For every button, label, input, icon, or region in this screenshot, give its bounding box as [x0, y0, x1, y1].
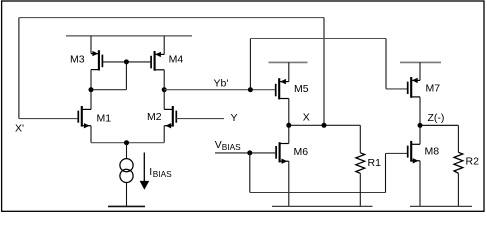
wire M4 source lead: [163, 36, 165, 55]
transistor M8 (NMOS, stubs right): [408, 141, 420, 164]
wire M6 source to ground: [288, 161, 290, 206]
transistor M2 (NMOS, stubs left): [164, 106, 176, 128]
wire M7 drain to node Z: [419, 97, 421, 126]
svg-text:Z(-): Z(-): [428, 112, 445, 124]
wire VBIAS to M6 gate: [215, 152, 276, 154]
wire M7 source lead: [419, 62, 421, 80]
wire M5 drain to node X: [288, 99, 290, 126]
wire M3 drain to M1 drain: [90, 70, 92, 110]
junction node Z: [418, 123, 423, 128]
ground (M6/R1): [272, 205, 373, 207]
svg-text:X': X': [15, 123, 24, 135]
wire M6 drain to node X: [288, 125, 290, 143]
wire R1 top lead: [359, 125, 361, 153]
wire VBIAS branch up to M8: [385, 153, 387, 192]
svg-text:M4: M4: [169, 54, 184, 66]
transistor M5 (PMOS, stubs right): [276, 78, 289, 99]
transistor M7 (PMOS, stubs right): [408, 77, 420, 98]
junction node X at top-route riser: [322, 123, 327, 128]
transistor M1 (NMOS, stubs right): [78, 106, 91, 128]
junction VBIAS branch: [247, 150, 252, 155]
wire M5 source lead: [288, 62, 290, 81]
wire VBIAS branch across: [250, 192, 386, 194]
wire M8 drain to node Z: [419, 125, 421, 144]
svg-text:X: X: [303, 111, 310, 123]
svg-text:M3: M3: [70, 53, 85, 65]
wire M8 gate lead: [386, 152, 408, 154]
junction tail node: [124, 140, 129, 145]
svg-text:Yb': Yb': [214, 78, 229, 90]
wire M7 gate lead: [386, 88, 408, 90]
svg-text:R1: R1: [368, 157, 382, 169]
junction M4 drain (node Yb'): [162, 87, 167, 92]
junction M3 drain: [89, 87, 94, 92]
svg-text:M7: M7: [426, 83, 441, 95]
current arrow IBIAS: [143, 153, 145, 183]
wire R1 bottom lead: [359, 173, 361, 206]
wire top route drop to node X: [323, 18, 325, 126]
power rail VDD (M3/M4): [66, 35, 192, 37]
wire cross-coupling to M3 drain: [91, 89, 126, 91]
svg-text:Y: Y: [231, 112, 238, 124]
svg-text:M6: M6: [294, 146, 309, 158]
junction node X at M5/M6 drains: [286, 123, 291, 128]
wire M2 source drop: [163, 126, 165, 143]
wire drop to M7 gate: [385, 39, 387, 89]
wire node X: [289, 124, 361, 126]
wire X' riser (left vertical): [18, 18, 20, 119]
transistor M6 (NMOS, stubs right): [276, 142, 289, 164]
power rail VDD (M7): [400, 61, 441, 63]
wire R2 top lead: [457, 125, 459, 152]
wire cross-coupling gates down: [125, 62, 127, 90]
ground (M8/R2): [410, 205, 472, 207]
wire tail (M1/M2 sources): [91, 142, 164, 144]
wire tail to current source: [126, 143, 128, 159]
wire M1 source drop: [90, 126, 92, 143]
svg-text:BIAS: BIAS: [153, 169, 172, 179]
wire current source to ground: [126, 183, 128, 207]
wire X' to M1 gate: [19, 118, 78, 120]
wire node Yb' to M5 gate: [164, 89, 276, 91]
svg-text:M2: M2: [147, 111, 162, 123]
junction gates M3/M4: [124, 59, 129, 64]
power rail VDD (M5): [269, 61, 308, 63]
svg-text:I: I: [149, 166, 152, 178]
svg-text:BIAS: BIAS: [222, 142, 241, 152]
resistor R1: [356, 153, 365, 174]
wire Yb' across to M7: [250, 38, 386, 40]
svg-text:M1: M1: [97, 112, 112, 124]
wire M2 gate to Y terminal: [176, 118, 224, 120]
svg-text:R2: R2: [466, 156, 480, 168]
wire top route X' to node X: [19, 17, 324, 19]
svg-text:M5: M5: [294, 83, 309, 95]
svg-text:V: V: [215, 139, 222, 151]
transistor M4 (PMOS, stubs right): [151, 51, 164, 71]
svg-text:M8: M8: [425, 146, 440, 158]
wire M8 source to ground: [419, 161, 421, 207]
wire Yb' riser up: [249, 39, 251, 90]
junction Yb' riser: [248, 87, 253, 92]
ground (tail): [108, 205, 145, 207]
wire M3 source lead: [90, 36, 92, 54]
current source IBIAS (two circles): [120, 159, 133, 172]
transistor M3 (PMOS, stubs left): [91, 50, 102, 70]
wire M4 drain to M2 drain: [163, 70, 165, 110]
wire R2 bottom lead: [457, 173, 459, 206]
resistor R2: [454, 152, 463, 173]
wire gate line M3-M4: [102, 61, 151, 63]
wire node Z: [420, 124, 458, 126]
wire VBIAS branch down: [249, 153, 251, 193]
